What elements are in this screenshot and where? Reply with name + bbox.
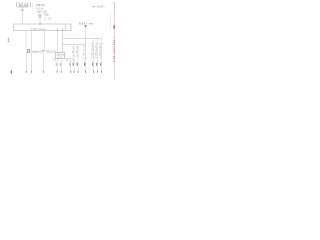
terminal mark corner wire <box>70 71 71 73</box>
wire I down from upper rail (x97.5) <box>97 39 99 71</box>
svg-text:0,35 sw/bl a: 0,35 sw/bl a <box>96 42 98 58</box>
fuse box SB (dashed border) <box>16 2 30 7</box>
svg-text:12: 12 <box>65 60 69 62</box>
pin label wire D bottom <box>56 63 57 66</box>
terminal mark wire F <box>74 71 75 73</box>
faint guide line x110 <box>109 14 111 29</box>
wire D below box <box>56 58 58 70</box>
pin label corner wire bottom <box>69 63 70 66</box>
wire C down from bus2 <box>44 31 46 50</box>
bottom left ground label <box>11 70 12 74</box>
control module box J519 <box>56 52 65 58</box>
terminal mark wire A <box>26 71 27 73</box>
svg-text:T26/12 (3: T26/12 (3 <box>45 51 56 54</box>
riser wire from reference down to rails <box>85 27 87 70</box>
wire F down from rail (x74) <box>73 45 75 71</box>
svg-text:16: 16 <box>72 60 75 62</box>
reference symbol below label (arrow) <box>84 25 87 27</box>
pin label wire E bottom <box>60 63 61 66</box>
wire from box bottom right corner going down <box>65 58 71 71</box>
svg-text:0,35 ws/ro: 0,35 ws/ro <box>83 44 86 59</box>
svg-text:0,35 sw/ro: 0,35 sw/ro <box>31 27 46 31</box>
connector tick on wire C <box>43 50 45 51</box>
svg-text:SB30: SB30 <box>36 3 45 7</box>
svg-text:T40/2: T40/2 <box>57 57 64 59</box>
svg-text:31: 31 <box>53 59 56 61</box>
terminal mark wire J <box>101 71 102 73</box>
svg-text:a(: a( <box>39 49 42 53</box>
terminal mark wire I <box>97 71 98 73</box>
svg-text:0,35 ro/sw 12a +: 0,35 ro/sw 12a + <box>113 36 116 62</box>
wire A lower segment <box>25 53 27 71</box>
highlighted wire (right, lower gray) <box>113 64 115 80</box>
wire A down from bus2 <box>25 31 27 50</box>
terminal mark wire C <box>43 71 44 73</box>
top right reference: dot <box>93 6 94 7</box>
terminal mark wire E <box>61 71 62 73</box>
svg-text:0,35 sw: 0,35 sw <box>77 46 79 56</box>
svg-text:ws/39 +: ws/39 + <box>97 6 107 9</box>
svg-text:): ) <box>32 3 33 7</box>
wire G down from rail (x78) <box>77 45 79 71</box>
terminal mark riser <box>85 71 86 73</box>
highlighted wire (right, red) <box>113 14 115 64</box>
svg-text:C /5: C /5 <box>45 16 52 20</box>
highlighted wire (right, gray top) <box>113 3 115 14</box>
wire C lower segment <box>42 53 44 71</box>
pin label wire G bottom <box>77 63 78 66</box>
junction tick wire x40 at bus1 <box>39 23 42 25</box>
rung between buses <box>64 24 66 31</box>
connector symbol on wire A <box>27 50 29 53</box>
svg-text:B397 ws: B397 ws <box>79 22 94 26</box>
terminal mark wire D <box>57 71 58 73</box>
wire E below box <box>60 58 62 70</box>
svg-text:0,35 ro: 0,35 ro <box>72 46 75 57</box>
distribution rail upper (y38.5) <box>63 38 102 40</box>
terminal mark wire G <box>78 71 79 73</box>
pin label riser bottom <box>84 63 85 66</box>
pin label wire H bottom <box>92 63 93 66</box>
distribution rail lower (y44.5) <box>63 44 86 46</box>
pin label wire J bottom <box>100 63 101 66</box>
bus bar 2 (lower horizontal rail) <box>14 24 71 31</box>
junction tick wire E at bus2 <box>61 29 64 31</box>
pin label wire F bottom <box>73 63 74 66</box>
wire H down from upper rail (x93.5) <box>93 39 95 71</box>
wire from fuse SB30 down to bus1 <box>39 10 41 24</box>
wire from fuse box down to bus1 <box>22 8 24 25</box>
svg-text:T10a: T10a <box>43 13 49 17</box>
highlighted wire red label 1 <box>114 25 115 29</box>
pin label wire I bottom <box>96 63 97 66</box>
wire E down from bus2 to box <box>62 31 64 53</box>
svg-text:S244: S244 <box>19 3 29 7</box>
svg-text:0,35 sw/ge a: 0,35 sw/ge a <box>100 42 102 58</box>
terminal mark wire H <box>93 71 94 73</box>
terminal mark wire B <box>31 71 32 73</box>
left margin section mark <box>8 38 9 39</box>
wire B down from bus2 <box>31 31 33 50</box>
junction tick wire D at bus2 <box>56 29 59 31</box>
inline connector T10a on wire <box>39 15 42 18</box>
wire B lower segment <box>31 53 33 71</box>
wire J down from upper rail (x101.5) <box>101 39 103 71</box>
highlighted wire top hook <box>113 2 115 3</box>
svg-text:0,35 sw/gr a: 0,35 sw/gr a <box>91 42 94 58</box>
bus bar 1 (top horizontal rail) <box>14 24 71 31</box>
wire D down from bus2 to box <box>57 31 59 53</box>
